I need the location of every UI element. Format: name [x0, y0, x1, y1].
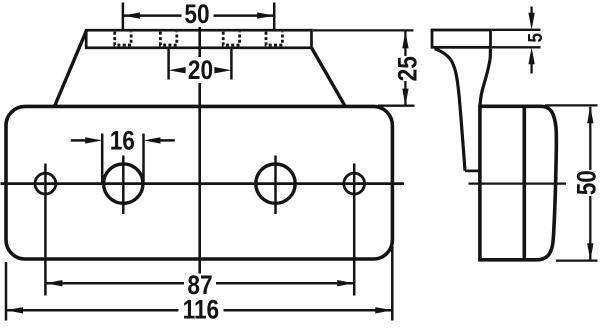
svg-text:5: 5: [524, 33, 547, 43]
svg-text:116: 116: [183, 296, 220, 325]
svg-text:16: 16: [110, 127, 135, 156]
svg-text:50: 50: [184, 0, 209, 29]
svg-text:50: 50: [573, 170, 600, 195]
svg-text:20: 20: [188, 57, 213, 86]
svg-text:25: 25: [394, 56, 423, 81]
